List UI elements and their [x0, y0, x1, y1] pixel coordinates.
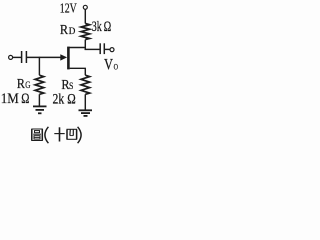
resistor RS [81, 75, 90, 94]
wire input terminal to C1 [13, 56, 22, 58]
capacitor C1 input [21, 51, 23, 63]
resistor RG [35, 75, 44, 94]
svg-text:3k: 3k [92, 19, 103, 35]
resistor RD [81, 24, 90, 40]
wire capacitor to Vo terminal [104, 48, 110, 50]
svg-text:Ω: Ω [21, 91, 29, 107]
transistor Q1 channel bar [67, 47, 70, 70]
capacitor C2 output [99, 43, 101, 54]
caption paren left [45, 127, 49, 143]
caption glyph 十 [54, 127, 64, 141]
transistor Q1 gate arrowhead [60, 54, 67, 60]
wire source lead [70, 67, 86, 69]
wire source to RS [84, 68, 86, 75]
svg-text:R: R [60, 23, 69, 38]
node VDD terminal [83, 5, 87, 9]
svg-text:V: V [104, 57, 113, 74]
svg-text:1M: 1M [1, 91, 19, 107]
svg-text:2k: 2k [53, 92, 65, 108]
svg-text:G: G [25, 81, 30, 91]
wire drain node to output capacitor [85, 48, 101, 50]
svg-text:D: D [69, 26, 76, 37]
caption glyph 四 [67, 129, 77, 139]
caption glyph 圖 [32, 129, 43, 141]
ground RS [79, 109, 93, 111]
wire RG vertical [38, 57, 40, 75]
node Vo terminal [110, 48, 114, 52]
svg-text:Ω: Ω [104, 19, 112, 35]
svg-text:O: O [114, 63, 118, 72]
wire RD to drain node [84, 40, 86, 50]
wire RS to ground [84, 94, 86, 110]
svg-text:12V: 12V [60, 1, 77, 16]
wire drain lead [69, 47, 86, 49]
node input terminal [9, 55, 13, 59]
svg-text:Ω: Ω [67, 92, 76, 108]
wire RG to ground [38, 94, 40, 106]
wire VDD to RD [84, 9, 86, 23]
caption paren right [78, 127, 82, 143]
svg-text:R: R [17, 77, 26, 92]
wire gate [26, 56, 63, 58]
ground RG [33, 105, 47, 107]
